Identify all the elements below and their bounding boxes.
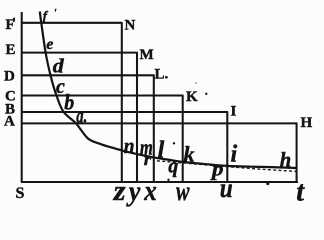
svg-text:': '	[12, 16, 16, 32]
vertical Nz	[121, 23, 123, 182]
line BI	[21, 111, 228, 113]
svg-text:M: M	[140, 47, 154, 63]
svg-text:b: b	[64, 90, 74, 115]
svg-text:r: r	[144, 149, 153, 169]
svg-text:k: k	[184, 142, 195, 167]
svg-text:K: K	[186, 89, 198, 105]
svg-text:H: H	[301, 115, 313, 131]
hyperbola curve f'..h	[40, 12, 297, 169]
ink speck on baseline	[266, 182, 269, 185]
svg-text:l: l	[158, 138, 165, 164]
svg-text:t: t	[296, 177, 305, 208]
ink speck above w	[167, 179, 169, 181]
svg-text:p: p	[210, 158, 224, 180]
line EM	[21, 52, 138, 54]
svg-text:d: d	[53, 55, 65, 77]
baseline S-t	[21, 181, 298, 183]
svg-text:y: y	[126, 177, 141, 208]
ink speck right of K	[205, 93, 207, 95]
vertical My	[136, 53, 138, 182]
svg-text:e: e	[46, 36, 53, 53]
svg-text:D: D	[4, 68, 15, 84]
svg-text:N: N	[125, 17, 136, 33]
svg-text:S: S	[16, 185, 25, 202]
ink speck above q	[173, 142, 175, 144]
vertical Lx	[153, 75, 155, 182]
svg-text:': '	[54, 7, 57, 19]
axis S-F' vertical	[21, 12, 23, 182]
line F'N	[21, 22, 123, 24]
vertical Kw	[182, 96, 184, 183]
svg-text:q: q	[168, 154, 178, 178]
svg-text:f: f	[43, 8, 49, 23]
vertical Ht	[296, 123, 298, 182]
svg-text:n: n	[124, 133, 135, 158]
svg-text:a.: a.	[76, 106, 87, 128]
svg-text:w: w	[176, 176, 190, 206]
line CK	[21, 94, 184, 96]
svg-text:i: i	[231, 141, 238, 167]
vertical Iu	[226, 112, 228, 182]
svg-text:x: x	[143, 176, 156, 207]
svg-text:z: z	[113, 176, 126, 207]
line AH	[21, 122, 297, 124]
svg-text:A: A	[4, 113, 15, 129]
svg-text:L.: L.	[155, 66, 169, 82]
faint speck above K	[195, 82, 197, 84]
dashed line r-h	[157, 161, 297, 172]
svg-text:I: I	[231, 103, 237, 119]
line DL	[21, 74, 155, 76]
svg-text:E: E	[6, 42, 16, 58]
svg-text:h: h	[280, 147, 292, 171]
